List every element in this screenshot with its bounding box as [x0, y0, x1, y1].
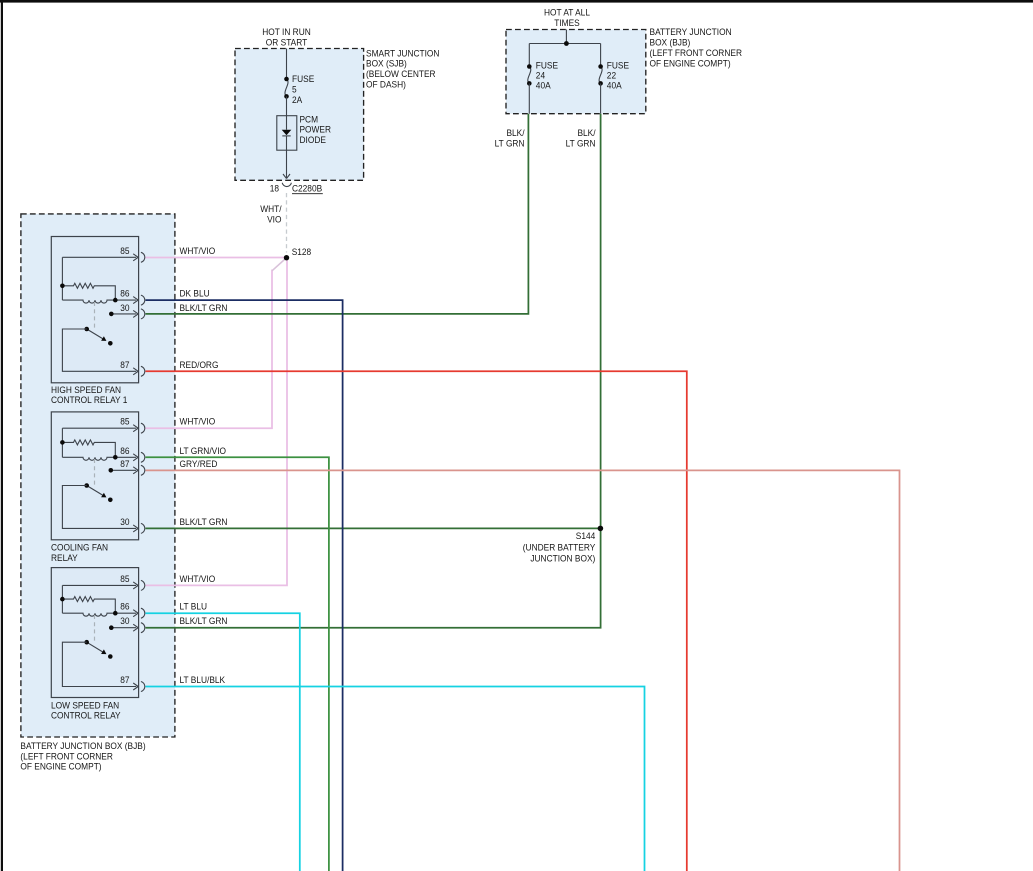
wire LT BLU relay 3 pin 86 — [146, 613, 300, 871]
svg-text:OR START: OR START — [266, 37, 308, 48]
K1 pin 85 connector — [141, 252, 145, 262]
K3 pin 86 wire — [115, 610, 138, 617]
label HOT AT ALL TIMES — [544, 7, 590, 28]
svg-text:LT BLU: LT BLU — [180, 601, 208, 612]
svg-text:WHT/: WHT/ — [260, 204, 282, 215]
K2 switch — [87, 486, 103, 496]
svg-text:85: 85 — [120, 245, 129, 256]
label BLK/LT GRN right — [566, 127, 596, 148]
svg-text:85: 85 — [120, 573, 129, 584]
svg-text:LOW SPEED FAN: LOW SPEED FAN — [51, 700, 119, 711]
svg-text:30: 30 — [120, 516, 129, 527]
svg-text:BLK/: BLK/ — [506, 127, 525, 138]
K3 coil resistor — [62, 597, 115, 614]
svg-text:(LEFT FRONT CORNER: (LEFT FRONT CORNER — [650, 48, 743, 59]
svg-text:BLK/LT GRN: BLK/LT GRN — [180, 516, 228, 527]
svg-text:HOT IN RUN: HOT IN RUN — [262, 27, 311, 38]
svg-text:86: 86 — [120, 288, 129, 299]
wire GRY/RED relay 2 pin 87 — [146, 470, 900, 871]
K2 pin 86 connector — [141, 452, 145, 462]
svg-text:SMART JUNCTION: SMART JUNCTION — [366, 48, 439, 59]
K1 pin 86 wire — [115, 297, 138, 304]
label HOT IN RUN OR START — [262, 27, 311, 48]
K1 pin 87 wire — [62, 329, 138, 375]
svg-text:GRY/RED: GRY/RED — [180, 458, 218, 469]
connector C2280B pin 18 — [282, 183, 291, 187]
K1 pin 30 connector — [141, 309, 145, 319]
K2 pin 30 wire — [62, 486, 138, 532]
fuse 5 2A — [285, 79, 288, 96]
relay cooling fan relay — [51, 412, 227, 563]
wire BLK/LT GRN relay 2 pin 30 to splice S144 — [146, 527, 601, 529]
splice S128 — [284, 255, 289, 260]
svg-text:WHT/VIO: WHT/VIO — [180, 245, 216, 256]
svg-text:BOX (SJB): BOX (SJB) — [366, 58, 407, 69]
K1 pin 86 connector — [141, 295, 145, 305]
svg-text:LT GRN: LT GRN — [495, 138, 525, 149]
svg-text:30: 30 — [120, 616, 129, 627]
K3 pin 85 wire — [62, 582, 138, 589]
svg-text:5: 5 — [292, 84, 297, 95]
K1 switch — [87, 329, 103, 339]
K1 armature link — [94, 302, 96, 330]
label SMART JUNCTION BOX (SJB) (BELOW CENTER OF DASH) — [366, 48, 439, 90]
wire DK BLU relay 1 pin 86 — [146, 300, 343, 871]
K1 coil winding — [62, 300, 115, 303]
svg-text:85: 85 — [120, 416, 129, 427]
battery junction box (BJB) top — [506, 30, 646, 114]
wire WHT/VIO S128 to relay 1 pin 85 — [146, 257, 287, 259]
svg-text:PCM: PCM — [300, 114, 319, 125]
label WHT/ VIO — [260, 204, 282, 225]
wire WHT/VIO S128 to relay 2 pin 85 — [146, 270, 273, 429]
relay high speed fan control relay 1 — [51, 237, 227, 406]
wire BJB feed tee — [529, 30, 600, 67]
smart junction box (SJB) — [235, 49, 364, 181]
svg-text:OF DASH): OF DASH) — [366, 79, 406, 90]
svg-text:86: 86 — [120, 601, 129, 612]
PCM power diode — [277, 116, 297, 151]
battery junction box (BJB) left — [21, 214, 175, 737]
svg-text:BLK/LT GRN: BLK/LT GRN — [180, 616, 228, 627]
svg-text:CONTROL RELAY: CONTROL RELAY — [51, 710, 121, 721]
svg-text:BATTERY JUNCTION: BATTERY JUNCTION — [650, 27, 732, 38]
svg-text:86: 86 — [120, 445, 129, 456]
svg-text:BLK/: BLK/ — [577, 127, 596, 138]
K1 pin 30 wire — [111, 310, 138, 317]
svg-text:TIMES: TIMES — [554, 18, 580, 29]
svg-text:BLK/LT GRN: BLK/LT GRN — [180, 302, 228, 313]
K3 pin 30 wire — [111, 624, 138, 631]
svg-text:87: 87 — [120, 675, 129, 686]
relay low speed fan control relay — [51, 568, 227, 721]
K2 coil resistor — [62, 440, 115, 457]
K2 pin 87 wire — [111, 467, 138, 474]
K1 pin 87 connector — [141, 366, 145, 376]
splice S144 — [598, 526, 604, 532]
svg-text:BOX (BJB): BOX (BJB) — [650, 37, 691, 48]
label BATTERY JUNCTION BOX (BJB) (LEFT FRONT CORNER OF ENGINE COMPT) — [20, 741, 145, 772]
svg-text:2A: 2A — [292, 94, 302, 105]
svg-text:BATTERY JUNCTION BOX (BJB): BATTERY JUNCTION BOX (BJB) — [20, 741, 145, 752]
svg-text:LT BLU/BLK: LT BLU/BLK — [180, 675, 226, 686]
K1 coil left wire — [61, 257, 63, 300]
K2 coil winding — [62, 457, 115, 460]
svg-text:WHT/VIO: WHT/VIO — [180, 416, 216, 427]
svg-text:WHT/VIO: WHT/VIO — [180, 573, 216, 584]
svg-text:S144: S144 — [576, 531, 596, 542]
svg-text:LT GRN: LT GRN — [566, 138, 596, 149]
svg-text:DIODE: DIODE — [300, 135, 326, 146]
svg-text:POWER: POWER — [300, 124, 332, 135]
wire RED/ORG relay 1 pin 87 — [146, 371, 687, 871]
svg-text:40A: 40A — [607, 80, 622, 91]
svg-text:S128: S128 — [292, 247, 312, 258]
wire BLK/LT GRN relay 3 pin 30 to splice S144 — [146, 528, 601, 627]
K3 pin 30 connector — [141, 623, 145, 633]
K2 pin 85 connector — [141, 423, 145, 433]
wire fuse 24 to box edge — [528, 83, 530, 113]
K3 pin 85 connector — [141, 580, 145, 590]
svg-text:RED/ORG: RED/ORG — [180, 359, 219, 370]
svg-text:DK BLU: DK BLU — [180, 288, 210, 299]
svg-text:(UNDER BATTERY: (UNDER BATTERY — [523, 542, 596, 553]
svg-text:LT GRN/VIO: LT GRN/VIO — [180, 445, 227, 456]
svg-text:RELAY: RELAY — [51, 553, 78, 564]
wire SJB feed vertical — [286, 49, 288, 80]
svg-text:18: 18 — [270, 183, 279, 194]
svg-text:C2280B: C2280B — [292, 183, 322, 194]
fuse 22 40A — [599, 67, 602, 84]
K2 pin 87 connector — [141, 465, 145, 475]
wire WHT/VIO from C2280B (white dashed) — [286, 193, 288, 253]
wire BLK/LT GRN fuse 24 to relay 1 pin 30 — [146, 114, 529, 314]
wire diode to connector with arrow — [286, 150, 288, 178]
wire WHT/VIO S128 to relay 3 pin 85 — [146, 258, 288, 585]
svg-text:(BELOW CENTER: (BELOW CENTER — [366, 69, 436, 80]
svg-text:HOT AT ALL: HOT AT ALL — [544, 7, 590, 18]
wire LT GRN/VIO relay 2 pin 86 — [146, 457, 329, 871]
K3 coil winding — [62, 613, 115, 616]
K3 switch — [87, 642, 103, 652]
K3 pin 87 wire — [62, 642, 138, 690]
node BJB feed junction — [564, 41, 569, 46]
svg-text:FUSE: FUSE — [292, 74, 314, 85]
page frame left border — [1, 0, 3, 871]
svg-text:COOLING FAN: COOLING FAN — [51, 542, 108, 553]
wire fuse to diode — [286, 96, 288, 115]
wire LT BLU/BLK relay 3 pin 87 — [146, 687, 645, 871]
label BLK/LT GRN left — [495, 127, 525, 148]
svg-text:JUNCTION BOX): JUNCTION BOX) — [530, 553, 595, 564]
page frame top border — [0, 0, 1033, 3]
K3 coil left wire — [61, 585, 63, 613]
svg-text:87: 87 — [120, 458, 129, 469]
K3 armature link — [94, 615, 96, 644]
wire BLK/LT GRN fuse 22 down to splice S144 — [600, 114, 602, 529]
svg-text:OF ENGINE COMPT): OF ENGINE COMPT) — [650, 58, 731, 69]
K2 pin 30 connector — [141, 523, 145, 533]
svg-text:30: 30 — [120, 302, 129, 313]
K1 coil resistor — [62, 283, 115, 300]
svg-text:87: 87 — [120, 359, 129, 370]
fuse 24 40A — [528, 67, 531, 84]
svg-text:(LEFT FRONT CORNER: (LEFT FRONT CORNER — [20, 751, 113, 762]
K2 armature link — [94, 459, 96, 487]
K2 coil left wire — [61, 428, 63, 457]
K3 pin 87 connector — [141, 682, 145, 692]
svg-text:CONTROL RELAY 1: CONTROL RELAY 1 — [51, 395, 127, 406]
svg-text:OF ENGINE COMPT): OF ENGINE COMPT) — [20, 761, 101, 772]
svg-text:40A: 40A — [536, 80, 551, 91]
wire fuse 22 to box edge — [600, 83, 602, 113]
K2 pin 85 wire — [62, 425, 138, 432]
K2 pin 86 wire — [115, 454, 138, 461]
label BATTERY JUNCTION BOX (BJB) (LEFT FRONT CORNER OF ENGINE COMPT) — [650, 27, 743, 69]
svg-text:VIO: VIO — [267, 214, 281, 225]
K3 pin 86 connector — [141, 608, 145, 618]
K1 pin 85 wire — [62, 254, 138, 261]
